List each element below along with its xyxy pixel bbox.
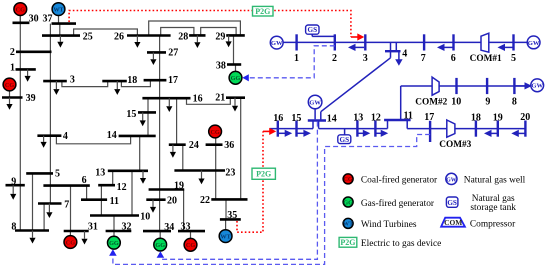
svg-text:39: 39 [26,93,36,104]
gas node 17 [429,121,431,142]
bus 18 [102,80,127,83]
gas generator GG at bus 32 [108,236,121,249]
load bus39 [9,98,11,105]
red arrow into node 3 [351,36,359,38]
svg-text:19: 19 [174,180,184,191]
svg-text:14: 14 [107,130,117,141]
bus 20 [146,198,165,201]
gas flow arrow 6 to 7 [444,46,454,48]
gas flow arrow 19 to 18 [491,132,498,134]
svg-text:29: 29 [215,32,225,43]
wind turbine WT at bus 35 [219,230,232,243]
svg-text:GG: GG [343,199,353,206]
wire: bus12-11-10 [100,185,102,215]
wire: CG30 stub [19,16,21,23]
load bus28 [196,35,198,42]
svg-text:WT: WT [343,221,354,228]
bus 2 [16,50,52,53]
wire: link 3-18 under [62,81,108,87]
wire: bus6-bus11 [86,186,88,200]
red arrow into node 16 [263,130,271,132]
gas node 11 bar [384,119,411,121]
bus 7 [38,202,62,205]
compressor COM#3 [447,120,455,137]
svg-text:CG: CG [210,129,219,136]
svg-text:1: 1 [10,63,15,74]
svg-text:18: 18 [471,112,481,123]
svg-text:P2G: P2G [340,238,355,247]
svg-text:9: 9 [485,97,490,108]
load bus24 [172,145,174,152]
svg-text:GW: GW [446,177,457,183]
gas node 18 [475,121,477,137]
bus 16 [142,97,190,100]
load bus23 [201,171,203,179]
svg-text:32: 32 [122,222,132,233]
svg-text:13: 13 [353,112,363,123]
wind turbine WT at bus 37 [52,3,65,16]
gas well GW row2 right [531,79,544,92]
svg-text:6: 6 [82,175,87,186]
svg-text:38: 38 [216,60,226,71]
wire: WT37 to bus37 [58,16,60,24]
svg-text:P2G: P2G [256,170,271,179]
load bus31 [84,231,86,239]
svg-text:CG: CG [186,242,195,249]
gas storage GS row3 [338,135,351,144]
svg-text:18: 18 [127,75,137,86]
gas flow arrow 5 to COM1 [505,46,514,48]
svg-text:storage tank: storage tank [470,203,516,213]
gas node 14 bar [308,119,326,121]
bus 35 [220,218,241,221]
svg-text:CG: CG [66,239,75,246]
svg-text:7: 7 [421,53,426,64]
svg-text:Gas-fired generator: Gas-fired generator [361,198,435,209]
svg-text:1: 1 [294,53,299,64]
wire: bus13-bus10 [131,171,133,216]
gas flow arrow 20 to 19 [518,132,525,134]
gas node 7 [423,34,425,50]
bus 1 [16,68,36,71]
coal generator CG at bus 31 [64,236,77,249]
bus 13 [108,170,148,173]
pipeline row1 GW-1-2-3-4-7-6-COM1-5-GW [283,41,527,43]
svg-text:10: 10 [140,211,150,222]
gas load arrow node4 [398,51,400,59]
gas node 2 [334,34,336,50]
blue dashed node17 to GG32 [113,135,430,265]
wire: link 28-29 elevated [201,28,236,36]
svg-text:COM#2: COM#2 [415,98,447,108]
load bus27 [152,52,154,59]
pipeline row3 14-13-12-11 [318,121,320,129]
gas node 5 [512,34,514,50]
bus 4 [37,134,61,137]
load bus9 [12,185,14,194]
wire: bus14-bus13 [139,136,141,171]
P2G device box top [253,6,274,16]
bus 14 [119,135,156,138]
svg-text:GW: GW [309,99,321,106]
wire: bus6-bus31 [70,186,72,231]
svg-text:36: 36 [224,140,234,151]
bus 38 [227,63,241,66]
legend gas well symbol [446,173,457,184]
svg-text:4: 4 [402,48,407,59]
bus 34 [143,230,171,233]
gas well GW row1 left [270,36,283,49]
svg-text:19: 19 [493,112,503,123]
svg-text:CG: CG [16,6,25,13]
gas flow arrow 15 to 14 [297,132,304,134]
svg-text:16: 16 [273,113,283,124]
load bus16 [168,98,170,106]
svg-text:20: 20 [167,196,177,207]
svg-text:WT: WT [220,233,231,240]
gas flow arrow 13 to 12 [357,132,363,134]
blue arrow into GG32 [109,249,117,256]
pipeline row3 16-15-14 [270,128,313,130]
bus 8 [15,229,49,232]
coal generator CG at bus 39 [3,78,16,91]
wire GS2 to pipe [344,129,346,135]
svg-text:15: 15 [126,109,136,120]
wire: CG33 stub [190,231,192,238]
svg-text:5: 5 [55,169,60,180]
svg-text:WT: WT [53,6,64,13]
compressor COM#1 [481,33,489,52]
load bus15 [142,112,144,120]
svg-text:CG: CG [5,82,14,89]
wire: CG31 stub [69,231,71,236]
svg-text:26: 26 [114,32,124,43]
svg-text:3: 3 [363,53,368,64]
svg-text:14: 14 [327,114,337,125]
bus 5 [26,172,53,175]
wire: bus7-bus8 [43,204,45,231]
load bus3 [55,81,57,89]
svg-text:17: 17 [168,75,178,86]
gas flow arrow 8 to GW [514,85,525,87]
wire: bus24-bus23 [182,145,184,171]
P2G device box mid [252,168,275,179]
load bus25 [59,36,61,42]
blue arrow into GG34 [157,251,165,257]
svg-text:23: 23 [225,168,235,179]
svg-text:2: 2 [332,53,337,64]
svg-text:28: 28 [178,32,188,43]
bus 27 [147,51,166,54]
gas flow arrow 16 to 15 [278,132,285,134]
pipeline row3 11-17-18-19-20 [406,120,408,129]
bus 25 [42,34,80,37]
bus 37 [52,22,77,25]
gas node 9 [486,78,488,94]
pipe diagonal 4-14 [390,51,392,58]
gas flow arrow 12 to 11 [375,132,381,134]
bus 17 [144,79,167,82]
svg-text:8: 8 [11,221,16,232]
gas well GW row3 [308,95,322,109]
red dotted bus35-P2G-node16 [237,131,263,232]
legend gas-fired generator symbol [343,197,353,207]
bus 21 [226,96,245,99]
svg-text:25: 25 [83,32,93,43]
gas node 3 [364,34,366,50]
wire: link 26-28 elevated [161,28,194,36]
wire: bus10-bus32-GG32 [113,216,115,237]
wire: link 18-17 under [121,80,150,86]
wire: bus19-bus33 [183,190,185,232]
bus 28 [189,34,205,37]
svg-text:10: 10 [451,97,461,108]
wire: long vertical 30-2-1-39-9-8 [19,16,21,231]
wire: bus22-bus35 [225,199,227,219]
svg-text:22: 22 [200,195,210,206]
svg-text:12: 12 [371,112,381,123]
gas node 12 [374,121,376,137]
svg-text:COM: COM [444,218,462,227]
svg-text:27: 27 [168,47,178,58]
gas node 10 [455,78,457,94]
svg-text:3: 3 [70,74,75,85]
wire: WT35 stub [225,219,227,229]
svg-text:GG: GG [155,242,165,249]
bus 30 [13,21,30,24]
svg-text:GW: GW [271,40,283,47]
wire: link 26-29 elevated [149,21,241,36]
svg-text:35: 35 [227,210,237,221]
wire: CG39 stub [9,91,11,98]
svg-text:7: 7 [64,200,69,211]
blue dashed node2 to GG38 [248,46,335,78]
svg-text:P2G: P2G [255,7,270,16]
svg-text:COM#3: COM#3 [439,140,471,150]
load bus4 [43,136,45,142]
gas node 15 [295,121,297,137]
gas node 20 [524,121,526,137]
red dotted bus37-P2G-node3 [69,11,351,38]
svg-text:GS: GS [447,199,457,207]
wire: long vertical 37-2-25-3-4-5-6-7 [49,24,51,204]
legend coal-fired generator symbol [343,174,353,184]
wire: link 25-26 elevated [74,29,138,36]
svg-text:CG: CG [343,176,352,183]
wire: bus16-15-14 [147,98,149,136]
wire: GG38 stub [235,65,237,72]
gas flow arrow 3 to 2 [355,46,364,48]
coal generator CG at bus 36 [209,125,222,138]
svg-text:20: 20 [520,112,530,123]
svg-text:GW: GW [528,40,540,47]
gas storage GS row1 [306,25,319,34]
svg-text:GS: GS [308,26,318,34]
svg-text:Natural gas well: Natural gas well [464,176,526,186]
svg-text:COM#1: COM#1 [470,54,502,64]
svg-text:15: 15 [291,113,301,124]
svg-text:17: 17 [424,112,434,123]
wire: bus37-bus25 [59,24,61,36]
svg-text:Coal-fired generator: Coal-fired generator [361,175,438,186]
load bus20 [152,200,154,207]
bus 19 [149,188,185,191]
wire: link 16-21 under [187,98,231,105]
svg-text:8: 8 [512,97,517,108]
gas node 16 [277,121,279,137]
bus 10 [90,214,139,217]
svg-text:Compressor: Compressor [470,220,516,230]
bus 29 [226,34,245,37]
bus 26 [127,34,171,37]
wire GS1 to node2 [311,34,313,36]
svg-text:12: 12 [117,182,127,193]
gas node 1 [295,34,297,50]
gas node 4 bar [385,50,401,52]
bus 36 [206,143,223,146]
svg-text:Electric to gas device: Electric to gas device [361,239,441,249]
bus 3 [43,80,67,83]
bus 24 [169,143,186,146]
bus 23 [174,169,225,172]
svg-text:5: 5 [511,53,516,64]
legend compressor symbol [441,218,465,227]
gas node 8 [513,78,515,94]
svg-text:24: 24 [189,140,199,151]
legend P2G symbol [339,237,357,247]
svg-text:37: 37 [43,13,53,24]
svg-text:GG: GG [109,240,119,247]
gas node 6 [452,34,454,50]
svg-text:21: 21 [215,93,225,104]
svg-text:GS: GS [340,136,350,144]
gas generator GG at bus 38 [229,71,242,84]
wire: bus29-bus38 [233,35,235,64]
svg-text:34: 34 [164,222,174,233]
gas node 19 [497,121,499,137]
svg-text:33: 33 [181,222,191,233]
wire: bus5-bus8 [32,173,34,230]
svg-text:6: 6 [451,53,456,64]
svg-text:GG: GG [231,75,241,82]
bus 15 [138,111,156,114]
svg-text:13: 13 [95,168,105,179]
coal generator CG at bus 30 [14,3,27,16]
svg-text:GW: GW [531,83,543,90]
legend gas storage symbol [446,197,458,207]
gas node 13 [356,121,358,137]
wire: bus34-GG34 [159,231,161,238]
svg-text:Wind Turbines: Wind Turbines [361,220,417,230]
bus 6 [43,184,89,187]
bus 22 [211,198,247,201]
svg-text:2: 2 [10,47,15,58]
svg-text:11: 11 [110,196,119,207]
load bus8 [32,231,34,238]
gas well GW row1 right [527,36,540,49]
blue dashed node14 to GG34 [161,122,317,260]
load bus29 [228,35,230,41]
wire: bus21-bus22 [240,98,242,200]
svg-text:30: 30 [29,13,39,24]
blue arrow into GG38 [242,74,249,81]
wire: CG36-bus36-bus23-bus22 [215,138,217,200]
wire: bus13-bus12 [112,171,114,185]
wire: link 4-14 under [56,136,130,144]
svg-text:11: 11 [403,111,412,122]
load bus1 [27,69,29,76]
load bus21 [234,98,236,106]
bus 9 [6,184,25,187]
load bus13 [142,171,144,178]
load bus18 [116,81,118,89]
load bus7 [48,204,50,213]
load bus26 [136,36,138,43]
wire: bus16-bus24 [176,98,178,145]
bus 32 [106,230,132,233]
gas generator GG at bus 34 [154,238,167,251]
pipeline row2 11-COM2-10-9-8-GW [400,86,402,120]
bus 31 [64,230,89,233]
bus 12 [98,184,115,187]
svg-text:16: 16 [193,93,203,104]
wire: long vertical 26-27-17-16-19-20-34 [159,36,161,232]
bus 11 [81,198,107,201]
svg-text:31: 31 [88,222,98,233]
legend wind turbine symbol [343,218,353,228]
bus 33 [178,230,205,233]
svg-text:4: 4 [63,131,68,142]
compressor COM#2 [432,77,439,95]
coal generator CG at bus 33 [184,238,197,251]
gas node 4 junction drop [390,42,392,51]
bus 39 [2,96,23,99]
